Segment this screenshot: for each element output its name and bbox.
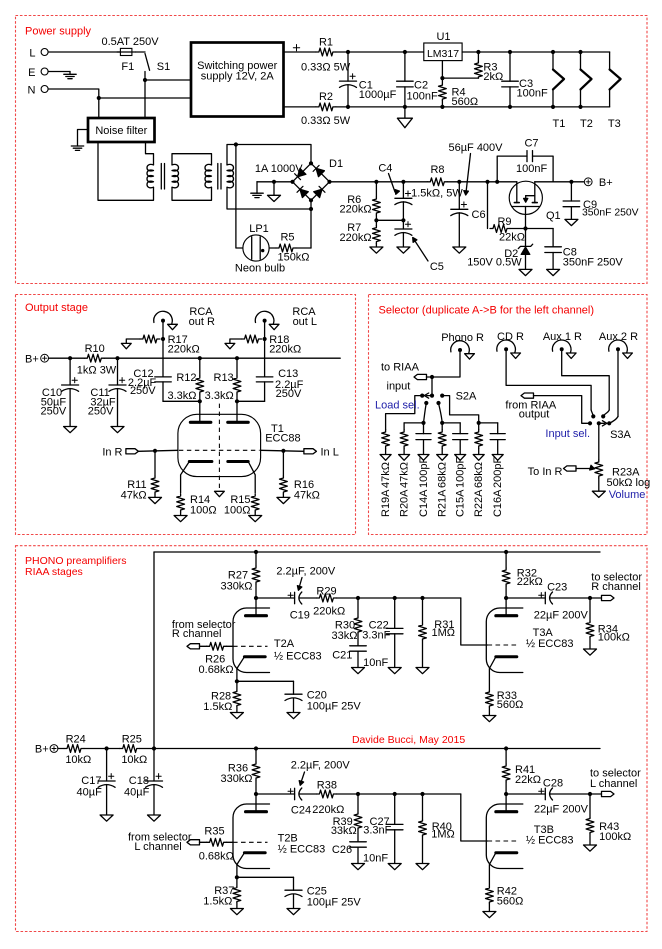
- svg-text:47kΩ: 47kΩ: [399, 462, 411, 488]
- junction LP1 branch: [234, 142, 238, 146]
- tube T3A plate: [505, 598, 507, 616]
- ground below R37: [230, 909, 243, 915]
- junction R12 plate node: [198, 399, 202, 403]
- transformer TR2 secondary: [227, 164, 234, 187]
- svg-text:100µF 25V: 100µF 25V: [307, 700, 362, 712]
- resistor R42: [486, 886, 524, 912]
- potentiometer R23A: [595, 460, 650, 491]
- svg-text:1A 1000V: 1A 1000V: [255, 163, 303, 175]
- capacitor C12: [128, 368, 171, 401]
- svg-text:C15A: C15A: [455, 489, 467, 517]
- tube T1 cathode B: [228, 460, 248, 463]
- ground below R42: [483, 912, 496, 918]
- junction ADJ node: [440, 76, 444, 80]
- svg-text:LM317: LM317: [427, 48, 459, 60]
- ground below C8: [547, 269, 560, 275]
- svg-text:Phono R: Phono R: [441, 332, 484, 344]
- svg-text:C19: C19: [290, 609, 310, 621]
- wire bottom rail: [336, 106, 610, 108]
- svg-text:R20A: R20A: [399, 489, 411, 517]
- resistor R30: [332, 598, 362, 646]
- ground below C2: [397, 107, 412, 128]
- transformer TR1 secondary: [172, 164, 179, 187]
- svg-text:out R: out R: [189, 316, 215, 328]
- transformer TR2 primary: [205, 164, 212, 187]
- capacitor C11: [88, 358, 126, 426]
- junction C10 top: [68, 356, 72, 360]
- capacitor C25: [237, 877, 362, 908]
- svg-text:2.2µF, 200V: 2.2µF, 200V: [276, 565, 336, 577]
- resistor R9: [488, 182, 526, 244]
- wire from RIAA to S3A contact1: [534, 396, 591, 424]
- ground below C6: [453, 247, 466, 253]
- svg-text:To In R: To In R: [528, 466, 563, 478]
- tube T3A cathode: [496, 655, 517, 658]
- svg-text:output: output: [519, 409, 550, 421]
- resistor R31: [419, 598, 455, 668]
- svg-text:R19A: R19A: [380, 489, 392, 517]
- wire TR2 secondary bottom to bridge: [227, 187, 311, 209]
- svg-text:33kΩ: 33kΩ: [331, 825, 357, 837]
- svg-text:B+: B+: [599, 177, 613, 189]
- svg-text:47kΩ: 47kΩ: [380, 462, 392, 488]
- svg-text:3.3nF: 3.3nF: [363, 824, 391, 836]
- junction T1 bottom: [551, 105, 555, 109]
- svg-text:out L: out L: [293, 316, 317, 328]
- wire R6R7 to C4C5: [376, 219, 403, 221]
- svg-text:T3: T3: [608, 118, 621, 130]
- resistor R8: [411, 164, 463, 200]
- svg-text:S3A: S3A: [610, 429, 631, 441]
- signal ground at bridge: [268, 182, 281, 202]
- svg-text:100pF: 100pF: [418, 457, 430, 488]
- RCA jack Phono R: [441, 332, 484, 359]
- wire S2A contact3 to R21A C15A: [439, 403, 443, 423]
- resistor R35: [199, 826, 234, 863]
- wire node to second grid: [461, 598, 488, 645]
- terminal E: [28, 67, 48, 79]
- capacitor C14A: [416, 434, 431, 517]
- svg-text:F1: F1: [121, 61, 134, 73]
- capacitor C13: [237, 368, 304, 401]
- junction R13 top: [235, 356, 239, 360]
- svg-text:2.2µF, 200V: 2.2µF, 200V: [291, 759, 351, 771]
- resistor R4: [439, 84, 479, 108]
- ground below C21: [352, 668, 365, 674]
- wire bridge minus to grounds: [257, 181, 293, 183]
- tube T1 internal shield: [215, 404, 225, 497]
- junction C11 top: [115, 356, 119, 360]
- tube T1 plate A: [199, 401, 201, 421]
- ground below R19A: [380, 455, 391, 461]
- tube T3B cathode: [496, 851, 517, 854]
- capacitor C1: [340, 52, 397, 107]
- junction C17 top: [105, 746, 109, 750]
- svg-text:R8: R8: [430, 164, 444, 176]
- RCA jack out L: [255, 306, 317, 330]
- resistor R22A: [473, 430, 485, 518]
- junction R16 top: [281, 449, 285, 453]
- capacitor C22: [362, 598, 403, 668]
- svg-text:Aux 2 R: Aux 2 R: [599, 331, 638, 343]
- arrow ground at R17: [121, 343, 131, 348]
- svg-text:22µF 200V: 22µF 200V: [534, 610, 589, 622]
- tube T2B envelope: [233, 804, 270, 869]
- svg-text:C28: C28: [543, 778, 563, 790]
- ground below C26: [352, 864, 365, 870]
- svg-text:150V 0.5W: 150V 0.5W: [467, 257, 522, 269]
- neon bulb LP1: [235, 223, 285, 274]
- wire S3A common to volume pot: [598, 423, 600, 460]
- capacitor C21: [332, 646, 388, 669]
- wire supply to R1: [284, 51, 316, 53]
- junction C1 top: [346, 50, 350, 54]
- svg-text:0.68kΩ: 0.68kΩ: [199, 851, 234, 863]
- junction R39 top: [356, 792, 360, 796]
- ground below C27: [388, 864, 401, 870]
- capacitor C27: [363, 794, 403, 864]
- tube T2B plate: [255, 794, 257, 812]
- ground below R16: [277, 497, 290, 503]
- svg-text:330kΩ: 330kΩ: [220, 773, 252, 785]
- heater T1: [552, 52, 565, 130]
- svg-text:10kΩ: 10kΩ: [121, 754, 147, 766]
- junction riser bottom: [152, 746, 156, 750]
- resistor R38: [312, 779, 344, 816]
- heater T2: [580, 52, 593, 130]
- wire Q1 source to B+: [535, 181, 585, 183]
- resistor R26: [199, 642, 234, 676]
- junction C2 top: [403, 50, 407, 54]
- wire gate node to C8: [526, 228, 554, 230]
- capacitor C19: [256, 565, 336, 621]
- terminal B+ output stage: [25, 354, 48, 366]
- svg-text:150kΩ: 150kΩ: [277, 252, 309, 264]
- resistor R37: [203, 877, 241, 908]
- svg-text:T2A: T2A: [274, 638, 295, 650]
- wire N node to noise filter: [98, 98, 100, 118]
- junction T3B plate node: [504, 792, 508, 796]
- resistor R40: [419, 794, 455, 864]
- svg-text:33kΩ: 33kΩ: [332, 630, 358, 642]
- svg-text:R27: R27: [228, 569, 248, 581]
- svg-text:1.5kΩ, 5W: 1.5kΩ, 5W: [411, 188, 463, 200]
- junction ground branch: [272, 180, 276, 184]
- junction R21A top: [440, 421, 444, 425]
- junction C3 top: [508, 50, 512, 54]
- chassis ground at bridge: [251, 182, 263, 198]
- svg-text:1kΩ 3W: 1kΩ 3W: [77, 364, 117, 376]
- svg-text:Selector (duplicate A->B for t: Selector (duplicate A->B for the left ch…: [379, 305, 595, 317]
- junction R18 node: [263, 337, 267, 341]
- svg-text:220kΩ: 220kΩ: [340, 232, 372, 244]
- junction C2 bottom: [403, 105, 407, 109]
- zener diode D2: [467, 229, 533, 270]
- wire R3 to ADJ: [442, 77, 478, 79]
- chassis ground at noise filter: [71, 130, 88, 151]
- junction R36 top: [254, 746, 258, 750]
- ground below R31: [416, 668, 429, 674]
- svg-text:R25: R25: [122, 734, 142, 746]
- wire LP1 to R5: [269, 247, 276, 249]
- svg-text:B+: B+: [35, 744, 49, 756]
- ground below C10: [64, 427, 77, 433]
- junction T3A plate node: [504, 596, 508, 600]
- svg-text:68kΩ: 68kΩ: [437, 462, 449, 488]
- svg-text:22µF 200V: 22µF 200V: [534, 804, 589, 816]
- junction S2A common: [430, 375, 434, 379]
- svg-text:R channel: R channel: [172, 628, 222, 640]
- ground below R43: [584, 845, 597, 851]
- svg-text:D1: D1: [329, 158, 343, 170]
- wire Aux2 to S3A contact4: [617, 351, 619, 416]
- mosfet Q1: [509, 181, 560, 228]
- svg-text:Power supply: Power supply: [25, 26, 92, 38]
- svg-text:R10: R10: [85, 343, 105, 355]
- resistor R14: [177, 494, 217, 517]
- svg-text:10nF: 10nF: [363, 657, 388, 669]
- capacitor C24: [256, 759, 350, 816]
- resistor R20A: [399, 430, 411, 518]
- tube T2A labels: [274, 638, 322, 663]
- ground below C16A: [492, 455, 503, 461]
- resistor R19A: [380, 430, 392, 518]
- svg-text:C16A: C16A: [492, 489, 504, 517]
- wire B+ rail output stage: [49, 357, 85, 359]
- tube T3B labels: [526, 824, 574, 847]
- junction C14A top: [421, 421, 425, 425]
- svg-text:RIAA stages: RIAA stages: [25, 566, 83, 578]
- svg-text:Davide Bucci, May 2015: Davide Bucci, May 2015: [352, 734, 465, 746]
- resistor R11: [121, 451, 159, 502]
- selector switch S3A: [588, 414, 632, 441]
- ground below R40: [416, 864, 429, 870]
- tube T2A envelope: [233, 608, 270, 673]
- wire RIAA B+ riser: [153, 552, 155, 749]
- tube T1 cathode A: [189, 460, 212, 463]
- capacitor C7: [497, 137, 553, 182]
- tube T1 grid line: [179, 449, 260, 451]
- resistor R25: [120, 734, 148, 766]
- svg-text:S2A: S2A: [456, 390, 477, 402]
- svg-text:N: N: [28, 84, 36, 96]
- svg-text:560Ω: 560Ω: [497, 896, 524, 908]
- ground below C9: [565, 219, 578, 225]
- wire LP1 branch down: [236, 145, 243, 249]
- terminal to RIAA input: [381, 362, 427, 393]
- svg-text:100kΩ: 100kΩ: [598, 631, 630, 643]
- tube T3B plate: [505, 794, 507, 812]
- svg-text:B+: B+: [25, 354, 39, 366]
- ground below C22: [388, 668, 401, 674]
- ground below R33: [483, 716, 496, 722]
- ground below C15A: [455, 455, 466, 461]
- ground below R7: [370, 247, 383, 253]
- capacitor C5: [395, 220, 444, 272]
- svg-text:47kΩ: 47kΩ: [121, 489, 147, 501]
- svg-text:to RIAA: to RIAA: [381, 362, 420, 374]
- tube T3A labels: [526, 627, 574, 650]
- svg-text:Neon bulb: Neon bulb: [235, 263, 285, 275]
- svg-text:R1: R1: [319, 36, 333, 48]
- resistor R6: [340, 182, 381, 216]
- power supply section border: [16, 16, 648, 284]
- svg-text:C18: C18: [129, 775, 149, 787]
- junction T1 top: [551, 50, 555, 54]
- svg-text:250V: 250V: [41, 405, 67, 417]
- wire to RIAA pin to S2A: [427, 376, 433, 378]
- wire plate node line: [336, 597, 460, 599]
- svg-text:½ ECC83: ½ ECC83: [526, 835, 574, 847]
- resistor R36: [252, 749, 260, 795]
- svg-text:S1: S1: [157, 61, 170, 73]
- capacitor C2: [397, 52, 438, 107]
- wire Aux1 to S3A contact3: [562, 351, 610, 410]
- svg-text:1000µF: 1000µF: [359, 89, 397, 101]
- svg-text:CD R: CD R: [497, 331, 524, 343]
- resistor R32: [502, 552, 543, 598]
- svg-text:1.5kΩ: 1.5kΩ: [203, 896, 232, 908]
- resistor R18: [230, 334, 301, 355]
- tube T2A cathode: [244, 655, 265, 658]
- svg-text:330kΩ: 330kΩ: [220, 581, 252, 593]
- svg-text:E: E: [28, 67, 35, 79]
- svg-text:C17: C17: [81, 775, 101, 787]
- transformer TR1 primary: [147, 164, 154, 187]
- terminal L: [29, 47, 48, 59]
- terminal to selector R: [590, 572, 642, 601]
- junction R3 top: [476, 50, 480, 54]
- svg-text:220kΩ: 220kΩ: [313, 606, 345, 618]
- wire RCA R down: [162, 323, 164, 377]
- svg-text:100µF 25V: 100µF 25V: [307, 897, 362, 909]
- output stage section border: [16, 295, 356, 535]
- svg-text:R21A: R21A: [437, 489, 449, 517]
- ground below C5: [397, 247, 410, 253]
- fuse F1: [101, 36, 159, 73]
- svg-text:In L: In L: [321, 446, 339, 458]
- heater T3: [608, 52, 621, 130]
- svg-text:220kΩ: 220kΩ: [312, 804, 344, 816]
- junction R4 bottom: [440, 105, 444, 109]
- svg-text:Input sel.: Input sel.: [545, 428, 590, 440]
- wire S2A contact4 to R22A C16A: [442, 396, 479, 423]
- svg-text:100nF: 100nF: [517, 88, 548, 100]
- junction R30 top: [356, 596, 360, 600]
- label 56uF 400V with arrow: [448, 142, 503, 195]
- terminal from RIAA output: [505, 393, 556, 421]
- capacitor C6: [451, 182, 486, 247]
- svg-text:R5: R5: [280, 232, 294, 244]
- resistor R39: [331, 794, 362, 842]
- svg-text:100Ω: 100Ω: [224, 505, 251, 517]
- svg-text:Volume: Volume: [609, 489, 646, 501]
- RCA jack out R: [154, 306, 215, 330]
- svg-text:L channel: L channel: [134, 841, 181, 853]
- wire In R to grid: [138, 450, 178, 451]
- svg-text:C5: C5: [430, 261, 444, 273]
- terminal To In R: [528, 466, 576, 478]
- resistor R3: [475, 52, 504, 83]
- chassis ground at E: [48, 72, 76, 79]
- tube T3B envelope: [486, 804, 523, 869]
- wire B+ to R24: [58, 748, 64, 750]
- svg-text:In R: In R: [102, 446, 122, 458]
- svg-text:10nF: 10nF: [363, 853, 388, 865]
- svg-text:Aux 1 R: Aux 1 R: [543, 331, 582, 343]
- capacitor C10: [41, 358, 79, 426]
- RIAA section border: [16, 546, 648, 932]
- capacitor C4: [378, 162, 412, 220]
- junction R6 R7 node: [375, 215, 377, 220]
- svg-text:100Ω: 100Ω: [190, 505, 217, 517]
- svg-text:½ ECC83: ½ ECC83: [526, 638, 574, 650]
- resistor R5: [276, 232, 310, 264]
- junction C22 top: [393, 596, 397, 600]
- svg-text:R13: R13: [214, 372, 234, 384]
- svg-text:Noise filter: Noise filter: [95, 125, 147, 137]
- switch S1: [145, 54, 170, 74]
- resistor R28: [203, 681, 241, 713]
- ground below R23A: [592, 491, 605, 497]
- tube T1 plate B: [236, 401, 238, 421]
- ground below R15: [249, 516, 262, 522]
- junction C27 top: [393, 792, 397, 796]
- junction T2B plate node: [254, 792, 258, 796]
- wire RIAA upper rail: [154, 551, 600, 553]
- junction C4 top: [401, 180, 405, 184]
- svg-text:C23: C23: [547, 582, 567, 594]
- svg-text:40µF: 40µF: [77, 787, 103, 799]
- terminal In R: [102, 446, 138, 458]
- wire noise filter to transformer primary: [146, 142, 154, 165]
- noise filter module: [88, 118, 155, 142]
- wire bridge bottom vertex: [310, 200, 312, 209]
- wire supply to R2: [284, 106, 316, 108]
- selector section border: [369, 295, 648, 535]
- terminal In L: [304, 446, 339, 458]
- capacitor C16A: [490, 434, 505, 517]
- junction R9 branch: [485, 180, 489, 184]
- svg-text:200pF: 200pF: [492, 457, 504, 488]
- junction N node: [97, 96, 101, 100]
- svg-text:R12: R12: [176, 372, 196, 384]
- svg-text:ECC88: ECC88: [265, 432, 300, 444]
- resistor R10: [77, 343, 117, 376]
- resistor R16: [280, 451, 320, 502]
- wire S2A contact2 to R20A C14A: [424, 403, 427, 423]
- ground below R21A: [437, 455, 448, 461]
- svg-text:T1: T1: [552, 118, 565, 130]
- arrow ground at R18: [225, 343, 235, 348]
- ground below R34: [584, 649, 597, 655]
- tube T2B grid: [233, 841, 268, 843]
- junction T2 top: [578, 50, 582, 54]
- wire N to supply box: [48, 89, 191, 98]
- wire L to fuse: [48, 51, 120, 53]
- junction bridge bottom branch: [309, 207, 313, 211]
- junction R32 top: [504, 550, 508, 554]
- wire RCA L down: [264, 323, 266, 377]
- svg-text:0.33Ω 5W: 0.33Ω 5W: [301, 115, 351, 127]
- svg-text:47kΩ: 47kΩ: [294, 489, 320, 501]
- terminal N: [28, 84, 49, 96]
- tube T3A envelope: [486, 608, 523, 673]
- capacitor C8: [545, 229, 624, 270]
- wire R1 to LM317: [336, 51, 424, 53]
- junction R11 top: [153, 449, 157, 453]
- wire plate node line: [336, 793, 460, 795]
